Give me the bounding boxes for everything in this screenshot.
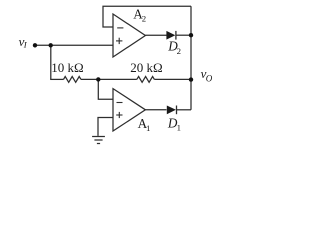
wire: vI input to A2 noninverting input	[35, 44, 113, 46]
wire: D1 cathode to output bus	[177, 109, 192, 111]
wire: A1 output to D1 anode	[145, 109, 166, 111]
wire: right vertical output bus	[190, 6, 192, 110]
node: vI input terminal dot	[33, 43, 37, 47]
svg-text:10 kΩ: 10 kΩ	[51, 60, 83, 75]
ground	[92, 137, 105, 144]
wire: left lead into 10k resistor	[50, 78, 63, 80]
label D2	[167, 39, 181, 56]
svg-text:2: 2	[177, 46, 181, 56]
wire: D2 cathode to output bus	[176, 34, 191, 36]
node: vO output junction on bus	[189, 77, 193, 81]
svg-text:2: 2	[142, 14, 146, 24]
label D1	[167, 115, 181, 132]
wire: 10k to 20k with junction node	[81, 78, 137, 80]
svg-text:O: O	[206, 73, 213, 83]
wire: junction down to A1 inverting input	[98, 79, 113, 99]
label vO	[201, 66, 213, 84]
svg-text:I: I	[23, 39, 28, 49]
diode D1	[167, 106, 177, 115]
wire: A2 feedback loop from bus top to inverting input	[103, 6, 191, 27]
svg-text:1: 1	[177, 123, 181, 133]
node: D2 cathode junction on bus	[189, 33, 193, 37]
wire: 20k resistor to output bus	[154, 78, 191, 80]
node: junction on vI wire	[49, 43, 53, 47]
resistor 10 kOhm	[64, 77, 82, 83]
label vI	[19, 34, 28, 50]
wire: vI junction down to 10k resistor line	[50, 45, 52, 79]
node: junction between 10k and A1 inverting branch	[96, 77, 100, 81]
wire: A2 output to D2 anode	[145, 34, 166, 36]
wire: A1 noninverting input to ground	[98, 118, 113, 136]
svg-text:20 kΩ: 20 kΩ	[130, 60, 162, 75]
label A1	[138, 116, 151, 133]
svg-text:1: 1	[146, 123, 150, 133]
op-amp A2	[113, 14, 145, 57]
diode D2	[166, 31, 176, 40]
resistor 20 kOhm	[137, 77, 155, 83]
op-amp A1	[113, 89, 145, 131]
label A2	[133, 7, 146, 24]
